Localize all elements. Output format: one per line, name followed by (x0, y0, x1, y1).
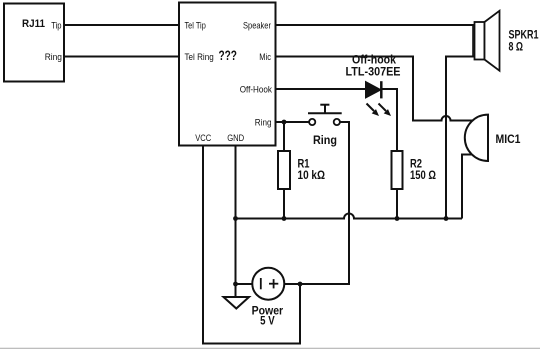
wire LED cathode to R2 top (381, 89, 397, 151)
svg-text:10 kΩ: 10 kΩ (298, 170, 326, 182)
IC U1 telephone interface box (179, 3, 276, 146)
svg-text:Off-hook: Off-hook (352, 55, 397, 67)
svg-text:R2: R2 (410, 159, 422, 171)
svg-text:Ring: Ring (313, 135, 337, 147)
wire speaker bottom terminal return: down to ground rail (446, 57, 474, 219)
wire Off-Hook: box Off-Hook pin to LED anode (275, 88, 367, 90)
svg-text:Mic: Mic (259, 52, 271, 63)
wire R2 bottom to ground rail (396, 188, 398, 219)
power supply plus sign (269, 279, 278, 288)
LED D1 triangle (366, 82, 382, 99)
svg-text:LTL-307EE: LTL-307EE (346, 67, 401, 79)
junction node R2 / ground rail (395, 216, 400, 221)
svg-text:???: ??? (218, 48, 237, 63)
speaker SPKR1 horn (485, 11, 500, 71)
svg-text:Speaker: Speaker (243, 21, 271, 32)
pushbutton S1 actuator bar (308, 112, 342, 114)
svg-text:8 Ω: 8 Ω (509, 42, 524, 54)
svg-text:R1: R1 (298, 159, 310, 171)
pushbutton right contact circle (334, 119, 340, 125)
junction node VCC path / power plus wire (298, 282, 303, 287)
svg-text:VCC: VCC (195, 133, 211, 144)
svg-text:Tel Tip: Tel Tip (185, 21, 206, 32)
scan artifact bottom edge (0, 348, 540, 349)
wire ground rail (hops over pushbutton wire at x=349) (236, 214, 463, 219)
junction node speaker return / ground rail (444, 216, 449, 221)
svg-text:Tip: Tip (51, 21, 61, 32)
svg-text:150 Ω: 150 Ω (410, 170, 436, 182)
wire MIC1 bottom terminal to ground rail (462, 155, 473, 219)
junction node at Ring pin / R1 (282, 120, 287, 125)
pushbutton left contact circle (309, 119, 315, 125)
junction node R1 / ground rail (282, 216, 287, 221)
resistor R1 body (278, 151, 290, 189)
svg-text:GND: GND (227, 133, 244, 144)
wire pushbutton right terminal down to power + wire (crosses rail with hop) (285, 122, 350, 284)
LED light arrow 2 (379, 104, 392, 117)
pushbutton stem (324, 105, 326, 114)
svg-text:MIC1: MIC1 (496, 134, 522, 146)
wire Speaker: box Speaker pin to SPKR1 top terminal (275, 24, 474, 26)
power supply V1 circle (252, 268, 284, 300)
connector RJ11 box (4, 4, 64, 82)
svg-text:Ring: Ring (255, 118, 272, 129)
junction node GND / power minus (233, 282, 238, 287)
wire GND pin down to power minus terminal (236, 146, 254, 284)
speaker SPKR1 terminal bus (472, 24, 474, 58)
LED light arrow 1 (367, 104, 380, 117)
wire R1 top branch (283, 122, 285, 152)
wire ground symbol stem (235, 284, 237, 297)
wire Mic: box Mic pin right then down then right to MIC1 (hops over speaker return wire) (275, 57, 474, 121)
wire VCC pin down, along bottom, up to power + wire (203, 146, 300, 344)
wire Ring: RJ11 Ring to Tel Ring (64, 56, 179, 58)
pushbutton top cap (320, 104, 329, 106)
junction node GND line / ground rail (233, 216, 238, 221)
power supply minus bar (260, 278, 262, 289)
svg-text:SPKR1: SPKR1 (509, 30, 539, 42)
wire Ring pin: box Ring pin to pushbutton left terminal (275, 121, 310, 123)
microphone MIC1 body (half disk, flat side right) (465, 115, 488, 161)
svg-text:Ring: Ring (45, 52, 62, 63)
svg-text:Tel Ring: Tel Ring (185, 52, 214, 63)
LED cathode bar (380, 81, 383, 98)
ground symbol (224, 297, 250, 309)
speaker SPKR1 driver rectangle (475, 22, 485, 60)
svg-text:RJ11: RJ11 (22, 18, 45, 30)
resistor R2 body (392, 151, 403, 189)
wire R1 bottom to ground rail (283, 188, 285, 219)
wire Tip: RJ11 Tip to Tel Tip (64, 24, 179, 26)
svg-text:5 V: 5 V (260, 316, 275, 328)
svg-text:Off-Hook: Off-Hook (240, 85, 273, 96)
